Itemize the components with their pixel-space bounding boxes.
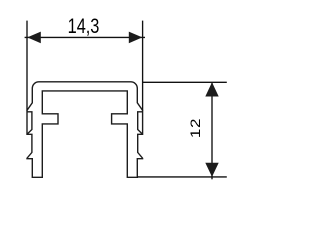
extension line top (height dim) bbox=[143, 81, 227, 83]
arrow right bbox=[129, 32, 143, 44]
dimension line 12 bbox=[211, 82, 213, 179]
arrow left bbox=[27, 32, 41, 44]
right leg internal slot (fin root + leg edge + wedge bottom) bbox=[138, 112, 143, 135]
left leg internal slot (fin root + leg edge + wedge bottom) bbox=[27, 112, 32, 135]
extension line left (width dim) bbox=[26, 21, 28, 111]
aluminium U-profile cross-section outline bbox=[27, 82, 143, 178]
extension line bottom (height dim) bbox=[137, 176, 227, 178]
svg-text:14,3: 14,3 bbox=[68, 15, 100, 39]
extension line right (width dim) bbox=[142, 21, 144, 111]
arrow down bbox=[205, 163, 218, 177]
arrow up bbox=[205, 82, 218, 96]
svg-text:12: 12 bbox=[188, 118, 203, 138]
dimension line 14,3 bbox=[25, 36, 145, 38]
